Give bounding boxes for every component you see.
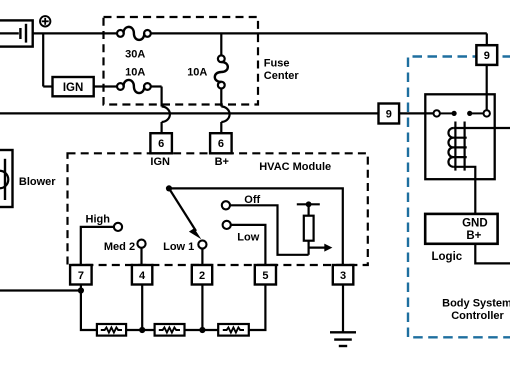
connector 7: [70, 265, 92, 285]
HVAC Module dashed box: [68, 153, 368, 265]
wire blower return to junction: [0, 289, 81, 291]
junction node connector 2 tap: [199, 285, 205, 334]
connector 9 (left): [379, 104, 400, 124]
thermal limiter node: [297, 201, 320, 207]
connector 5: [255, 265, 276, 285]
connector 4: [132, 265, 152, 285]
svg-text:6: 6: [158, 138, 164, 150]
wire R2 to R3: [185, 329, 219, 331]
wire GND box to right edge: [475, 244, 510, 264]
switch wiper arrow: [169, 188, 201, 239]
wire Low to connector 5: [231, 225, 265, 265]
wire connector 7 down to resistor chain: [81, 285, 97, 331]
wire connector 9 to relay box: [399, 112, 434, 114]
wire coil bottom to GND box: [453, 167, 475, 214]
label Fuse Center: [264, 58, 300, 83]
wire IGN to fuse F2: [94, 85, 118, 87]
svg-text:Center: Center: [264, 70, 300, 82]
svg-text:3: 3: [340, 270, 346, 282]
svg-text:GND: GND: [462, 218, 488, 230]
svg-text:9: 9: [386, 108, 392, 120]
junction node: [78, 287, 84, 293]
connector 6 B+: [210, 133, 232, 153]
svg-text:5: 5: [262, 270, 268, 282]
wire connector 9 top to relay contact: [486, 65, 488, 111]
wire Low 1 to connector 2: [201, 249, 203, 265]
wire hop to connector 6 IGN: [161, 122, 163, 134]
resistor R3: [218, 324, 249, 336]
wire hop over main feed (IGN): [162, 107, 170, 123]
svg-text:4: 4: [139, 270, 146, 282]
wire High to connector 7: [81, 227, 114, 265]
battery B1: [0, 20, 33, 46]
blower motor: [0, 150, 13, 207]
svg-text:30A: 30A: [125, 49, 145, 61]
wire Off to resistor bottom: [231, 205, 309, 255]
thermal limiter arrow: [309, 244, 333, 252]
connector 2: [192, 265, 212, 285]
fuse F2 10A: [117, 80, 151, 93]
switch contact Low: [223, 221, 231, 229]
wire R3 to connector 5: [249, 285, 266, 331]
svg-text:Low 1: Low 1: [163, 241, 194, 253]
connector 6 IGN: [150, 133, 172, 153]
svg-text:IGN: IGN: [150, 156, 170, 168]
resistor R1: [97, 324, 126, 336]
fuse center dashed box: [104, 17, 259, 105]
svg-text:Blower: Blower: [19, 176, 56, 188]
wire hop to connector 6 B+: [220, 122, 222, 134]
connector 3: [333, 265, 354, 285]
label Body System Controller: [442, 297, 510, 322]
battery positive terminal: [40, 16, 50, 26]
svg-text:7: 7: [78, 270, 84, 282]
svg-text:10A: 10A: [187, 67, 207, 79]
wire coil top to right edge: [453, 127, 510, 129]
GND B+ box: [425, 214, 497, 244]
relay coil: [448, 122, 466, 171]
wire main horizontal B+ feed: [0, 112, 379, 114]
fuse F1 30A: [117, 27, 151, 40]
svg-text:B+: B+: [215, 156, 229, 168]
wire branch to fuse F3: [220, 33, 222, 55]
relay contacts: [434, 110, 490, 116]
resistor R2: [155, 324, 185, 336]
wire battery to fuse F1: [33, 32, 118, 34]
svg-text:Body System: Body System: [442, 297, 510, 309]
wiper pivot node: [166, 185, 172, 191]
wire connector 3 to ground: [342, 285, 344, 333]
svg-text:Low: Low: [237, 231, 259, 243]
svg-text:10A: 10A: [125, 67, 145, 79]
Body System Controller dashed boundary: [408, 57, 510, 338]
svg-text:2: 2: [199, 270, 205, 282]
wire fuse F1 to connector 9 (top): [151, 33, 487, 45]
svg-text:6: 6: [218, 138, 224, 150]
svg-text:B+: B+: [466, 230, 481, 242]
svg-text:Controller: Controller: [451, 310, 504, 322]
svg-text:9: 9: [484, 50, 490, 62]
svg-text:High: High: [86, 213, 111, 225]
junction node connector 4 tap: [139, 285, 145, 334]
switch contact Off: [222, 201, 230, 209]
thermal limiter resistor: [304, 204, 314, 255]
svg-text:Logic: Logic: [432, 251, 463, 263]
wire R1 to R2: [126, 329, 155, 331]
wire F2 to hop: [151, 87, 162, 107]
wire F3 to hop: [220, 88, 222, 106]
wire Med 2 to connector 4: [140, 248, 142, 265]
wire battery branch to IGN switch: [43, 33, 52, 86]
switch contact Med 2: [137, 240, 145, 248]
svg-text:Off: Off: [244, 194, 260, 206]
wire hop over main feed (B+): [221, 107, 229, 123]
svg-text:HVAC Module: HVAC Module: [259, 161, 331, 173]
svg-text:Med 2: Med 2: [104, 241, 135, 253]
switch contact Low 1: [198, 240, 206, 248]
svg-text:Fuse: Fuse: [264, 58, 290, 70]
relay box: [425, 94, 494, 179]
ignition switch IGN: [53, 77, 94, 96]
svg-text:IGN: IGN: [63, 82, 83, 94]
ground: [330, 332, 356, 346]
wire feed to connector 3: [169, 188, 343, 265]
fuse F3 10A vertical: [215, 55, 228, 88]
switch contact High: [114, 223, 122, 231]
connector 9 (top): [476, 45, 497, 65]
